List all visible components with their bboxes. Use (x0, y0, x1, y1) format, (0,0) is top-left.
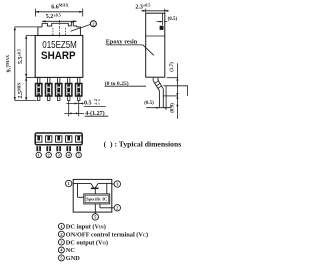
svg-text:GND: GND (66, 255, 80, 262)
svg-text:( ) : Typical dimensions: ( ) : Typical dimensions (104, 139, 182, 148)
svg-text:DC input (VIN): DC input (VIN) (66, 224, 106, 231)
svg-text:(0.5): (0.5) (168, 17, 178, 22)
svg-text:NC: NC (66, 247, 76, 254)
svg-text:DC output (VO): DC output (VO) (66, 239, 108, 246)
svg-text:0.5: 0.5 (84, 100, 92, 106)
svg-text:2: 2 (48, 153, 50, 158)
svg-text:(0.5): (0.5) (144, 101, 154, 106)
svg-text:ON/OFF control terminal (VC): ON/OFF control terminal (VC) (66, 231, 148, 238)
svg-text:4-(1.27): 4-(1.27) (85, 110, 105, 117)
svg-text:1: 1 (38, 153, 40, 158)
svg-text:Specific IC: Specific IC (86, 197, 107, 202)
svg-text:(0 to 0.25): (0 to 0.25) (105, 80, 129, 87)
svg-text:SHARP: SHARP (41, 50, 76, 62)
svg-text:3: 3 (58, 153, 60, 158)
svg-text:(1.7): (1.7) (170, 62, 175, 72)
svg-text:−0.1: −0.1 (94, 102, 100, 106)
svg-text:5: 5 (78, 153, 80, 158)
svg-text:Epoxy resin: Epoxy resin (106, 38, 138, 45)
svg-text:(0.9): (0.9) (170, 103, 175, 113)
